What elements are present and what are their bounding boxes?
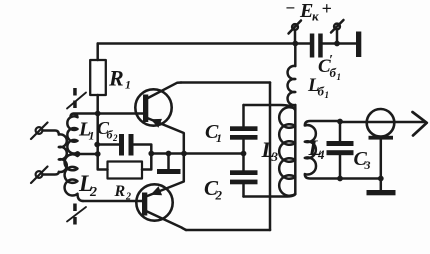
wire to choke [294, 44, 297, 67]
svg-text:R: R [108, 66, 124, 91]
svg-text:к: к [312, 9, 319, 24]
label Ek [285, 0, 332, 24]
wire output top [340, 121, 425, 124]
inductor Lb1 [288, 66, 296, 105]
label L1 [78, 119, 95, 143]
resistor R1 [90, 44, 106, 114]
ammeter [367, 109, 395, 179]
svg-text:1: 1 [337, 72, 342, 82]
input terminal top [31, 123, 48, 140]
svg-text:+: + [322, 0, 332, 19]
svg-text:R: R [114, 183, 126, 200]
inductor L1 [67, 114, 77, 154]
node under plus terminal [334, 41, 340, 47]
capacitor C1 [230, 105, 258, 154]
marker arrow L2 [67, 204, 86, 225]
node base1 [95, 111, 101, 117]
wire Cb2 to node1 [134, 145, 152, 154]
node L1 L2 tap [75, 151, 81, 157]
capacitor C'b1 [310, 34, 323, 58]
node meter bottom [378, 176, 384, 182]
input coupling coil [43, 131, 67, 175]
chassis bar [356, 32, 361, 58]
wire supply top rail [98, 42, 356, 45]
inductor L4 [305, 121, 381, 179]
wire collector1 top [181, 81, 270, 84]
transistor Q1 [135, 83, 184, 154]
inductor L2 [65, 154, 83, 201]
svg-text:3: 3 [364, 158, 371, 172]
terminal plus [331, 20, 344, 44]
label C2 [204, 176, 223, 203]
label L4 [308, 135, 326, 162]
wire choke down through L3 [294, 105, 297, 194]
wire emitter junction row [151, 152, 243, 155]
label C1 [205, 121, 222, 145]
node 3 [181, 151, 187, 157]
wire tap to divider [78, 153, 98, 156]
label Lb1 [307, 75, 329, 100]
wire tank bottom [244, 194, 296, 197]
svg-text:б: б [330, 65, 337, 80]
label C'b1 [318, 53, 341, 82]
node C3 bottom [337, 176, 343, 182]
inductor L3 [279, 107, 295, 196]
node 1 [148, 151, 154, 157]
ground [157, 154, 181, 175]
wire to Cb2 [97, 143, 119, 146]
arrow output [413, 112, 427, 136]
capacitor C2 [230, 154, 258, 197]
marker arrow L1 [67, 88, 86, 109]
wire outer right vertical [269, 83, 272, 231]
wire tank top [244, 105, 295, 110]
resistor R2 [108, 154, 152, 179]
svg-text:б: б [318, 84, 325, 99]
wire R1 to R2 vertical [98, 114, 108, 170]
svg-text:2: 2 [215, 188, 223, 203]
node tap at divider [95, 151, 101, 157]
svg-text:1: 1 [216, 131, 222, 145]
label L2 [78, 171, 97, 200]
node Cb2 branch [94, 142, 100, 148]
capacitor C3 [327, 122, 354, 179]
svg-text:4: 4 [317, 147, 325, 162]
ground output [367, 179, 396, 196]
node C3 top [337, 119, 343, 125]
node 2 [166, 151, 172, 157]
svg-text:2: 2 [112, 133, 118, 143]
capacitor Cb2 [119, 134, 134, 156]
label L3 [261, 137, 279, 164]
svg-text:1: 1 [89, 129, 95, 143]
label R1 [108, 66, 131, 92]
svg-text:1: 1 [325, 90, 330, 100]
node under minus terminal [292, 41, 298, 47]
wire base1 rail [71, 114, 144, 118]
terminal minus [289, 21, 302, 44]
label Cb2 [97, 118, 118, 143]
label R2 [114, 183, 132, 203]
input terminal bottom [31, 167, 48, 184]
node tank mid [241, 151, 247, 157]
label C3 [354, 148, 371, 172]
svg-text:1: 1 [125, 78, 131, 92]
svg-text:2: 2 [89, 185, 97, 200]
wire collector2 bottom [186, 229, 270, 232]
svg-text:−: − [285, 0, 295, 18]
svg-text:3: 3 [271, 149, 279, 164]
transistor Q2 [83, 154, 186, 231]
